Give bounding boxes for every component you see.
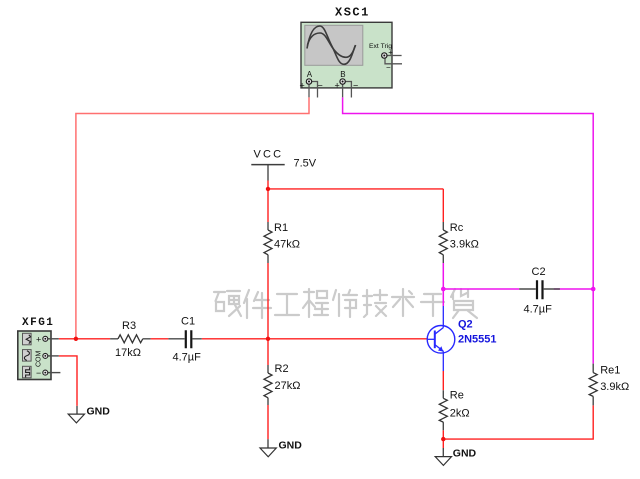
svg-text:COM: COM <box>36 351 43 368</box>
svg-text:2N5551: 2N5551 <box>458 334 497 346</box>
svg-text:Re1: Re1 <box>600 365 620 377</box>
svg-text:R1: R1 <box>274 222 288 234</box>
svg-text:27kΩ: 27kΩ <box>275 380 301 392</box>
svg-text:R3: R3 <box>122 320 136 332</box>
svg-text:GND: GND <box>453 448 477 460</box>
svg-text:XSC1: XSC1 <box>335 6 370 20</box>
svg-text:47kΩ: 47kΩ <box>274 239 300 251</box>
svg-text:−: − <box>353 81 358 91</box>
svg-text:R2: R2 <box>275 363 289 375</box>
svg-text:+: + <box>335 81 340 91</box>
svg-text:XFG1: XFG1 <box>22 317 54 329</box>
svg-text:A: A <box>307 70 313 79</box>
svg-text:−: − <box>36 368 41 378</box>
svg-text:4.7µF: 4.7µF <box>524 304 553 316</box>
svg-text:GND: GND <box>87 405 111 417</box>
svg-text:C1: C1 <box>181 316 195 328</box>
svg-text:GND: GND <box>279 439 303 451</box>
svg-text:VCC: VCC <box>254 149 284 161</box>
svg-text:7.5V: 7.5V <box>294 158 317 170</box>
svg-text:2kΩ: 2kΩ <box>450 408 470 420</box>
svg-text:+: + <box>388 48 393 57</box>
svg-text:3.9kΩ: 3.9kΩ <box>450 239 479 251</box>
svg-text:17kΩ: 17kΩ <box>115 347 141 359</box>
svg-text:Q2: Q2 <box>458 319 473 331</box>
svg-text:B: B <box>340 70 345 79</box>
svg-text:4.7µF: 4.7µF <box>173 352 202 364</box>
svg-text:−: − <box>386 63 391 72</box>
svg-text:Re: Re <box>450 389 464 401</box>
svg-text:−: − <box>318 81 323 91</box>
svg-text:3.9kΩ: 3.9kΩ <box>600 381 629 393</box>
svg-text:C2: C2 <box>532 266 546 278</box>
svg-text:Rc: Rc <box>450 222 464 234</box>
svg-text:+: + <box>300 81 305 91</box>
svg-text:+: + <box>36 334 41 344</box>
